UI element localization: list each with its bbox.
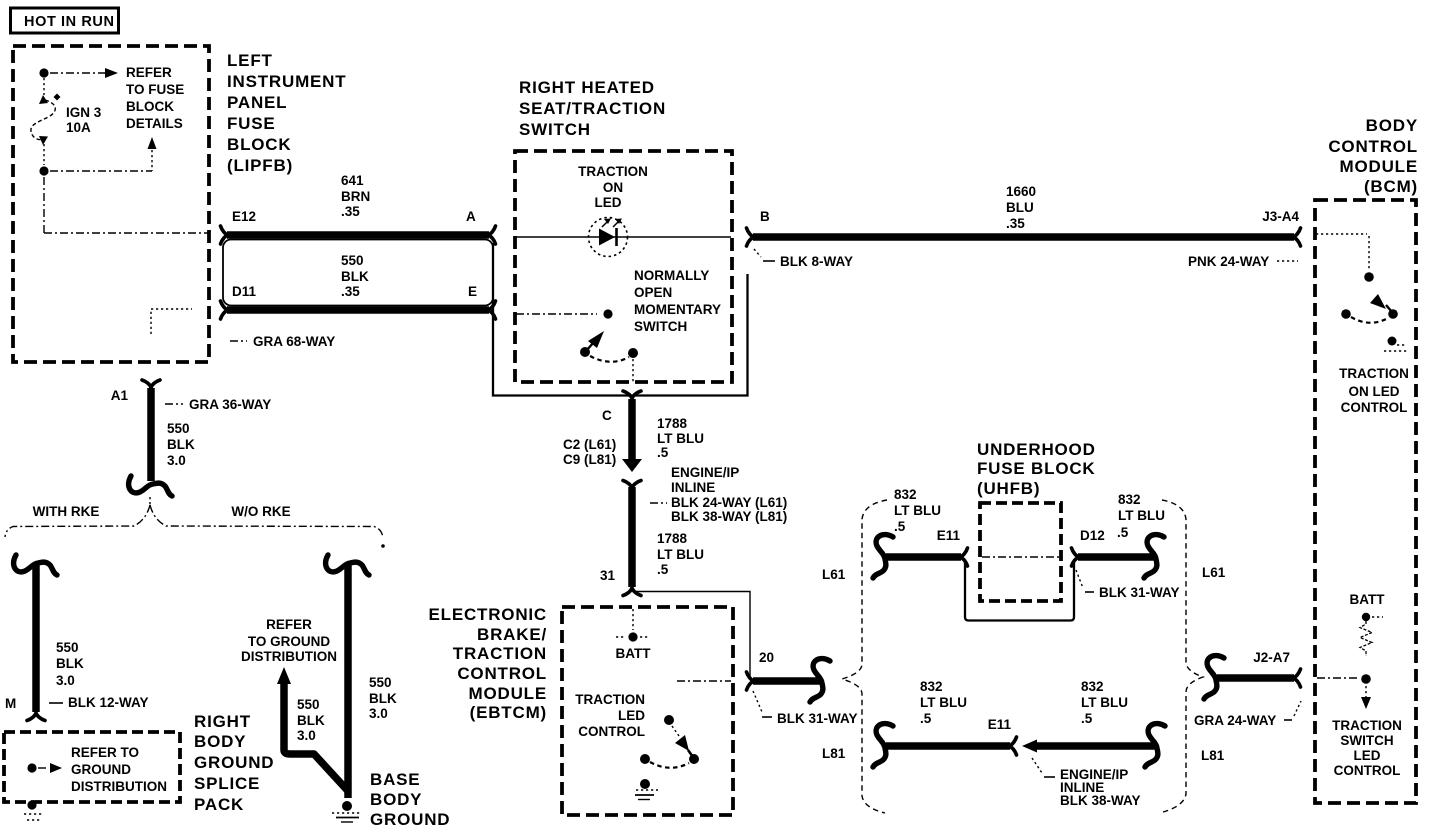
svg-text:B: B [760, 209, 770, 224]
svg-text:550: 550 [167, 421, 190, 436]
svg-text:.5: .5 [657, 562, 669, 577]
label BLK 8-WAY [754, 249, 761, 257]
svg-text:W/O RKE: W/O RKE [231, 504, 290, 519]
svg-text:BODY: BODY [1366, 116, 1418, 135]
splice connector L61 right [1144, 535, 1164, 578]
label engine/ip inline blk 24/38-way [671, 465, 787, 524]
EBTCM title [429, 605, 548, 722]
svg-text:UNDERHOOD: UNDERHOOD [977, 440, 1096, 459]
wire J3-A4 into BCM [1316, 233, 1367, 235]
splice connector J2-A7 wire [1204, 656, 1224, 699]
svg-text:D12: D12 [1080, 528, 1105, 543]
svg-text:BLK: BLK [369, 691, 397, 706]
svg-text:550: 550 [297, 697, 320, 712]
wire 31 to 20 routing [633, 592, 750, 678]
svg-text:C: C [602, 408, 612, 423]
connector E12 [221, 226, 229, 244]
svg-text:LT BLU: LT BLU [657, 431, 704, 446]
node dot in ground box [27, 763, 36, 772]
wire GRA to J2-A7 [1217, 674, 1294, 682]
wire fuse to lower dot [43, 144, 45, 165]
connector 20 [747, 672, 755, 690]
svg-text:TRACTION: TRACTION [578, 164, 648, 179]
svg-text:CONTROL: CONTROL [1341, 400, 1408, 415]
engine/ip inline connector [623, 481, 641, 489]
label refer to fuse block details [126, 65, 184, 131]
connector J2-A7 [1293, 669, 1301, 687]
right heated seat/traction switch title [519, 78, 666, 139]
svg-text:DISTRIBUTION: DISTRIBUTION [71, 779, 167, 794]
connector A [488, 226, 496, 244]
label engine/ip inline blk 38-way [1032, 758, 1042, 773]
splice connector L61 left [873, 535, 893, 578]
svg-text:J3-A4: J3-A4 [1262, 209, 1299, 224]
node BCM switch output dot [1388, 337, 1397, 346]
BCM dashed box [1315, 200, 1416, 803]
svg-text:.35: .35 [341, 284, 360, 299]
ground in EBTCM [640, 779, 650, 789]
svg-text:GRA 68-WAY: GRA 68-WAY [253, 334, 335, 349]
node: fuse output dot [39, 166, 48, 175]
svg-text:550: 550 [369, 675, 392, 690]
svg-text:832: 832 [1081, 679, 1104, 694]
svg-text:.5: .5 [894, 519, 906, 534]
svg-text:(BCM): (BCM) [1364, 177, 1418, 196]
wire dash-dot down and right to E12 [43, 177, 45, 233]
svg-text:LED: LED [1354, 748, 1381, 763]
svg-text:BATT: BATT [616, 646, 652, 661]
svg-text:E11: E11 [988, 717, 1012, 732]
svg-text:BLK 38-WAY: BLK 38-WAY [1060, 793, 1141, 808]
connector J3-A4 [1293, 228, 1301, 246]
svg-text:(EBTCM): (EBTCM) [470, 703, 547, 722]
svg-text:.5: .5 [657, 445, 669, 460]
wire to pin 20 inside EBTCM [677, 680, 731, 682]
svg-text:E11: E11 [937, 528, 961, 543]
svg-text:SWITCH: SWITCH [519, 120, 591, 139]
svg-text:E12: E12 [232, 209, 256, 224]
splice connector 20 wire [810, 659, 830, 702]
connector D11 [221, 301, 229, 319]
svg-text:RIGHT: RIGHT [194, 712, 251, 731]
svg-text:D11: D11 [232, 284, 257, 299]
wire dot to fuse [43, 78, 45, 95]
svg-text:BASE: BASE [370, 770, 420, 789]
svg-text:IGN 3: IGN 3 [66, 105, 102, 120]
svg-text:TO FUSE: TO FUSE [126, 82, 184, 97]
svg-text:SPLICE: SPLICE [194, 774, 260, 793]
svg-text:BODY: BODY [370, 790, 422, 809]
svg-text:FUSE: FUSE [227, 114, 276, 133]
svg-text:BLK 38-WAY (L81): BLK 38-WAY (L81) [671, 509, 787, 524]
svg-text:C9 (L81): C9 (L81) [563, 452, 616, 467]
svg-text:CONTROL: CONTROL [457, 664, 547, 683]
wire 832 LT BLU from D12 [1078, 553, 1156, 561]
connector E [488, 301, 496, 319]
svg-text:1788: 1788 [657, 416, 688, 431]
svg-text:M: M [5, 696, 16, 711]
resistor R in BCM [1360, 621, 1372, 656]
svg-text:A: A [466, 209, 476, 224]
label refer to ground distribution [241, 617, 337, 664]
svg-text:LEFT: LEFT [227, 51, 273, 70]
label base body ground [370, 770, 450, 829]
svg-text:ON: ON [603, 180, 623, 195]
svg-text:BLK: BLK [297, 713, 325, 728]
label GRA 68-WAY [230, 340, 247, 342]
svg-text:REFER: REFER [266, 617, 312, 632]
svg-text:20: 20 [759, 650, 774, 665]
svg-text:BLK 31-WAY: BLK 31-WAY [1099, 585, 1180, 600]
node J2-A7 junction dot [1361, 674, 1371, 684]
inline arrow left [1022, 740, 1037, 753]
wire around UHFB E11 to D12 [965, 562, 1074, 621]
svg-text:CONTROL: CONTROL [1334, 763, 1401, 778]
wire 550 BLK D11 to E [227, 306, 489, 314]
svg-text:LT BLU: LT BLU [1081, 695, 1128, 710]
svg-text:3.0: 3.0 [56, 673, 75, 688]
left instrument panel fuse block LIPFB dashed box [13, 46, 209, 362]
switch dashed box [515, 151, 732, 382]
svg-text:GRA 24-WAY: GRA 24-WAY [1194, 713, 1276, 728]
splice connector w/o-RKE branch [326, 555, 369, 575]
svg-text:GROUND: GROUND [194, 753, 274, 772]
connector E11 L81 [1009, 737, 1017, 755]
label normally open momentary switch [634, 268, 721, 334]
arrow wire to ground distribution [277, 667, 291, 684]
splice connector L81 right [1145, 724, 1165, 767]
svg-text:TRACTION: TRACTION [453, 644, 547, 663]
svg-text:A1: A1 [111, 388, 129, 403]
svg-text:HOT IN RUN: HOT IN RUN [24, 14, 115, 30]
svg-text:641: 641 [341, 173, 364, 188]
fuse IGN3 10A element [31, 94, 61, 146]
UHFB dashed box [980, 503, 1061, 601]
label traction led control [575, 692, 645, 739]
svg-text:MODULE: MODULE [1340, 157, 1418, 176]
wire inside UHFB [982, 556, 1059, 558]
fuse block connector partial dashed outline [151, 309, 192, 334]
svg-text:J2-A7: J2-A7 [1253, 650, 1290, 665]
svg-text:C2 (L61): C2 (L61) [563, 437, 616, 452]
wire 832 LT BLU L81 right [1035, 742, 1156, 750]
svg-text:BLK: BLK [341, 269, 369, 284]
node switch input dot [1364, 272, 1374, 282]
svg-text:BLK 12-WAY: BLK 12-WAY [68, 695, 149, 710]
svg-text:RIGHT HEATED: RIGHT HEATED [519, 78, 655, 97]
svg-text:GROUND: GROUND [370, 810, 450, 829]
wire 550 BLK 3.0 from A1 [147, 388, 155, 481]
label BLK 31-WAY [753, 691, 762, 712]
svg-text:ELECTRONIC: ELECTRONIC [429, 605, 548, 624]
wire BLK 31-WAY pin 20 [753, 677, 822, 685]
svg-text:550: 550 [341, 253, 364, 268]
svg-text:(LIPFB): (LIPFB) [227, 156, 293, 175]
svg-text:TRACTION: TRACTION [575, 692, 645, 707]
wire 832 LT BLU to E11 [886, 553, 961, 561]
svg-text:BLOCK: BLOCK [126, 99, 174, 114]
svg-text:REFER TO: REFER TO [71, 745, 139, 760]
svg-text:3.0: 3.0 [167, 453, 186, 468]
splice connector with-RKE branch [14, 555, 57, 575]
arrow up to details [151, 150, 153, 171]
svg-text:(UHFB): (UHFB) [977, 479, 1040, 498]
wire 641 BRN E12 to A [227, 231, 489, 239]
node BATT dot [1362, 613, 1370, 621]
svg-text:.5: .5 [920, 711, 932, 726]
svg-text:1660: 1660 [1006, 184, 1036, 199]
svg-text:MOMENTARY: MOMENTARY [634, 302, 721, 317]
svg-text:ON LED: ON LED [1348, 384, 1399, 399]
connector 31 [623, 588, 641, 596]
brace right grouping L61/L81 [1162, 500, 1203, 812]
svg-text:.35: .35 [341, 204, 360, 219]
svg-text:CONTROL: CONTROL [578, 724, 645, 739]
svg-text:GRA 36-WAY: GRA 36-WAY [189, 397, 271, 412]
inline connector arrow down [622, 459, 642, 472]
wire 1788 LT BLU to EBTCM 31 [628, 487, 636, 587]
harness outline between wires [223, 240, 493, 306]
label right body ground splice pack [194, 712, 274, 814]
svg-text:E: E [468, 284, 477, 299]
splice connector L81 left [873, 724, 893, 767]
LED D1 [589, 218, 628, 257]
wire E to momentary switch [516, 313, 597, 315]
wire A/E loop below switch [493, 243, 748, 396]
svg-text:LT BLU: LT BLU [920, 695, 967, 710]
wire 1788 LT BLU from C [628, 399, 636, 459]
svg-text:TO GROUND: TO GROUND [248, 634, 331, 649]
svg-text:LED: LED [595, 195, 622, 210]
svg-text:L61: L61 [1202, 565, 1226, 580]
svg-text:LT BLU: LT BLU [894, 503, 941, 518]
connector D12 [1072, 548, 1080, 566]
svg-text:BLK: BLK [167, 437, 195, 452]
svg-text:BRAKE/: BRAKE/ [477, 625, 547, 644]
HOT IN RUN label box [11, 8, 119, 33]
breakout to with/without RKE [149, 497, 151, 505]
label traction on led [578, 164, 648, 210]
svg-text:FUSE BLOCK: FUSE BLOCK [977, 459, 1096, 478]
svg-text:L61: L61 [822, 567, 846, 582]
EBTCM dashed box [562, 607, 733, 815]
wire dash-dot to refer arrow [50, 72, 105, 74]
arrow to traction switch led control [1365, 686, 1367, 697]
svg-text:INSTRUMENT: INSTRUMENT [227, 72, 346, 91]
svg-text:LED: LED [618, 708, 645, 723]
svg-text:INLINE: INLINE [671, 480, 715, 495]
connector C [623, 391, 641, 399]
svg-text:BLK: BLK [56, 656, 84, 671]
ground below box [27, 800, 36, 809]
svg-text:ENGINE/IP: ENGINE/IP [671, 465, 739, 480]
svg-text:L81: L81 [1201, 748, 1225, 763]
svg-text:SEAT/TRACTION: SEAT/TRACTION [519, 99, 666, 118]
svg-text:TRACTION: TRACTION [1332, 718, 1402, 733]
refer to ground distribution dashed box [4, 732, 180, 802]
svg-text:31: 31 [600, 568, 616, 583]
svg-text:SWITCH: SWITCH [1340, 733, 1393, 748]
body control module BCM title [1328, 116, 1418, 196]
svg-text:LT BLU: LT BLU [1118, 508, 1165, 523]
svg-text:.5: .5 [1117, 525, 1129, 540]
svg-text:1788: 1788 [657, 531, 688, 546]
svg-text:PANEL: PANEL [227, 93, 287, 112]
wire 832 LT BLU to E11 L81 [886, 742, 1010, 750]
EBTCM traction led switch [640, 715, 699, 768]
wire 550 BLK 3.0 w/o RKE [344, 564, 352, 798]
brace left grouping L61/L81 [842, 500, 887, 813]
svg-text:BLK 8-WAY: BLK 8-WAY [780, 254, 853, 269]
wire dash-dot to up arrow [50, 170, 152, 172]
svg-text:.35: .35 [1006, 216, 1025, 231]
svg-text:.5: .5 [1081, 711, 1093, 726]
svg-text:BLU: BLU [1006, 200, 1034, 215]
svg-text:BLOCK: BLOCK [227, 135, 291, 154]
svg-text:DISTRIBUTION: DISTRIBUTION [241, 649, 337, 664]
wire batt inside EBTCM [632, 609, 634, 630]
svg-text:10A: 10A [66, 120, 91, 135]
base body ground symbol [342, 801, 352, 811]
wire through LED [516, 236, 731, 238]
label traction on led control [1339, 366, 1409, 415]
label BLK 12-WAY [49, 702, 63, 704]
svg-text:DETAILS: DETAILS [126, 116, 183, 131]
label refer to ground distribution [71, 745, 167, 794]
momentary switch S1 [580, 309, 638, 383]
svg-text:REFER: REFER [126, 65, 172, 80]
wire 550 BLK 3.0 with RKE [32, 564, 40, 712]
svg-text:BLK 31-WAY: BLK 31-WAY [777, 711, 858, 726]
svg-text:BATT: BATT [1350, 592, 1386, 607]
label traction switch led control [1332, 718, 1402, 778]
svg-text:WITH RKE: WITH RKE [33, 504, 100, 519]
wire 1660 BLU B to J3-A4 [753, 233, 1294, 241]
LIPFB title text [227, 51, 346, 175]
svg-text:LT BLU: LT BLU [657, 547, 704, 562]
svg-text:OPEN: OPEN [634, 285, 672, 300]
connector B [747, 228, 755, 246]
arrow refer to ground [50, 763, 62, 773]
splice connector at A1 wire end [129, 476, 172, 496]
svg-text:832: 832 [920, 679, 943, 694]
svg-text:MODULE: MODULE [469, 684, 547, 703]
node: fuse feed junction dot [39, 68, 48, 77]
svg-text:3.0: 3.0 [297, 728, 316, 743]
arrow to REFER TO FUSE BLOCK DETAILS [105, 68, 118, 78]
underhood fuse block UHFB title [977, 440, 1096, 498]
svg-text:BLK 24-WAY (L61): BLK 24-WAY (L61) [671, 495, 787, 510]
svg-text:550: 550 [56, 640, 79, 655]
svg-text:GROUND: GROUND [71, 762, 131, 777]
connector E11 [960, 548, 968, 566]
svg-text:L81: L81 [822, 746, 846, 761]
svg-text:BRN: BRN [341, 189, 370, 204]
label GRA 36-WAY [165, 403, 183, 405]
svg-text:CONTROL: CONTROL [1328, 137, 1418, 156]
svg-text:PACK: PACK [194, 795, 244, 814]
svg-text:832: 832 [894, 487, 917, 502]
svg-text:NORMALLY: NORMALLY [634, 268, 709, 283]
svg-text:3.0: 3.0 [369, 706, 388, 721]
svg-text:SWITCH: SWITCH [634, 319, 687, 334]
label BLK 31-WAY at D12 [1076, 570, 1083, 588]
svg-text:PNK 24-WAY: PNK 24-WAY [1188, 254, 1269, 269]
svg-text:TRACTION: TRACTION [1339, 366, 1409, 381]
BCM traction on led switch [1341, 294, 1398, 323]
connector A1 [142, 380, 160, 388]
svg-text:BODY: BODY [194, 732, 246, 751]
connector M [27, 713, 45, 721]
svg-text:832: 832 [1118, 492, 1141, 507]
wire J2-A7 inside BCM [1317, 677, 1357, 679]
